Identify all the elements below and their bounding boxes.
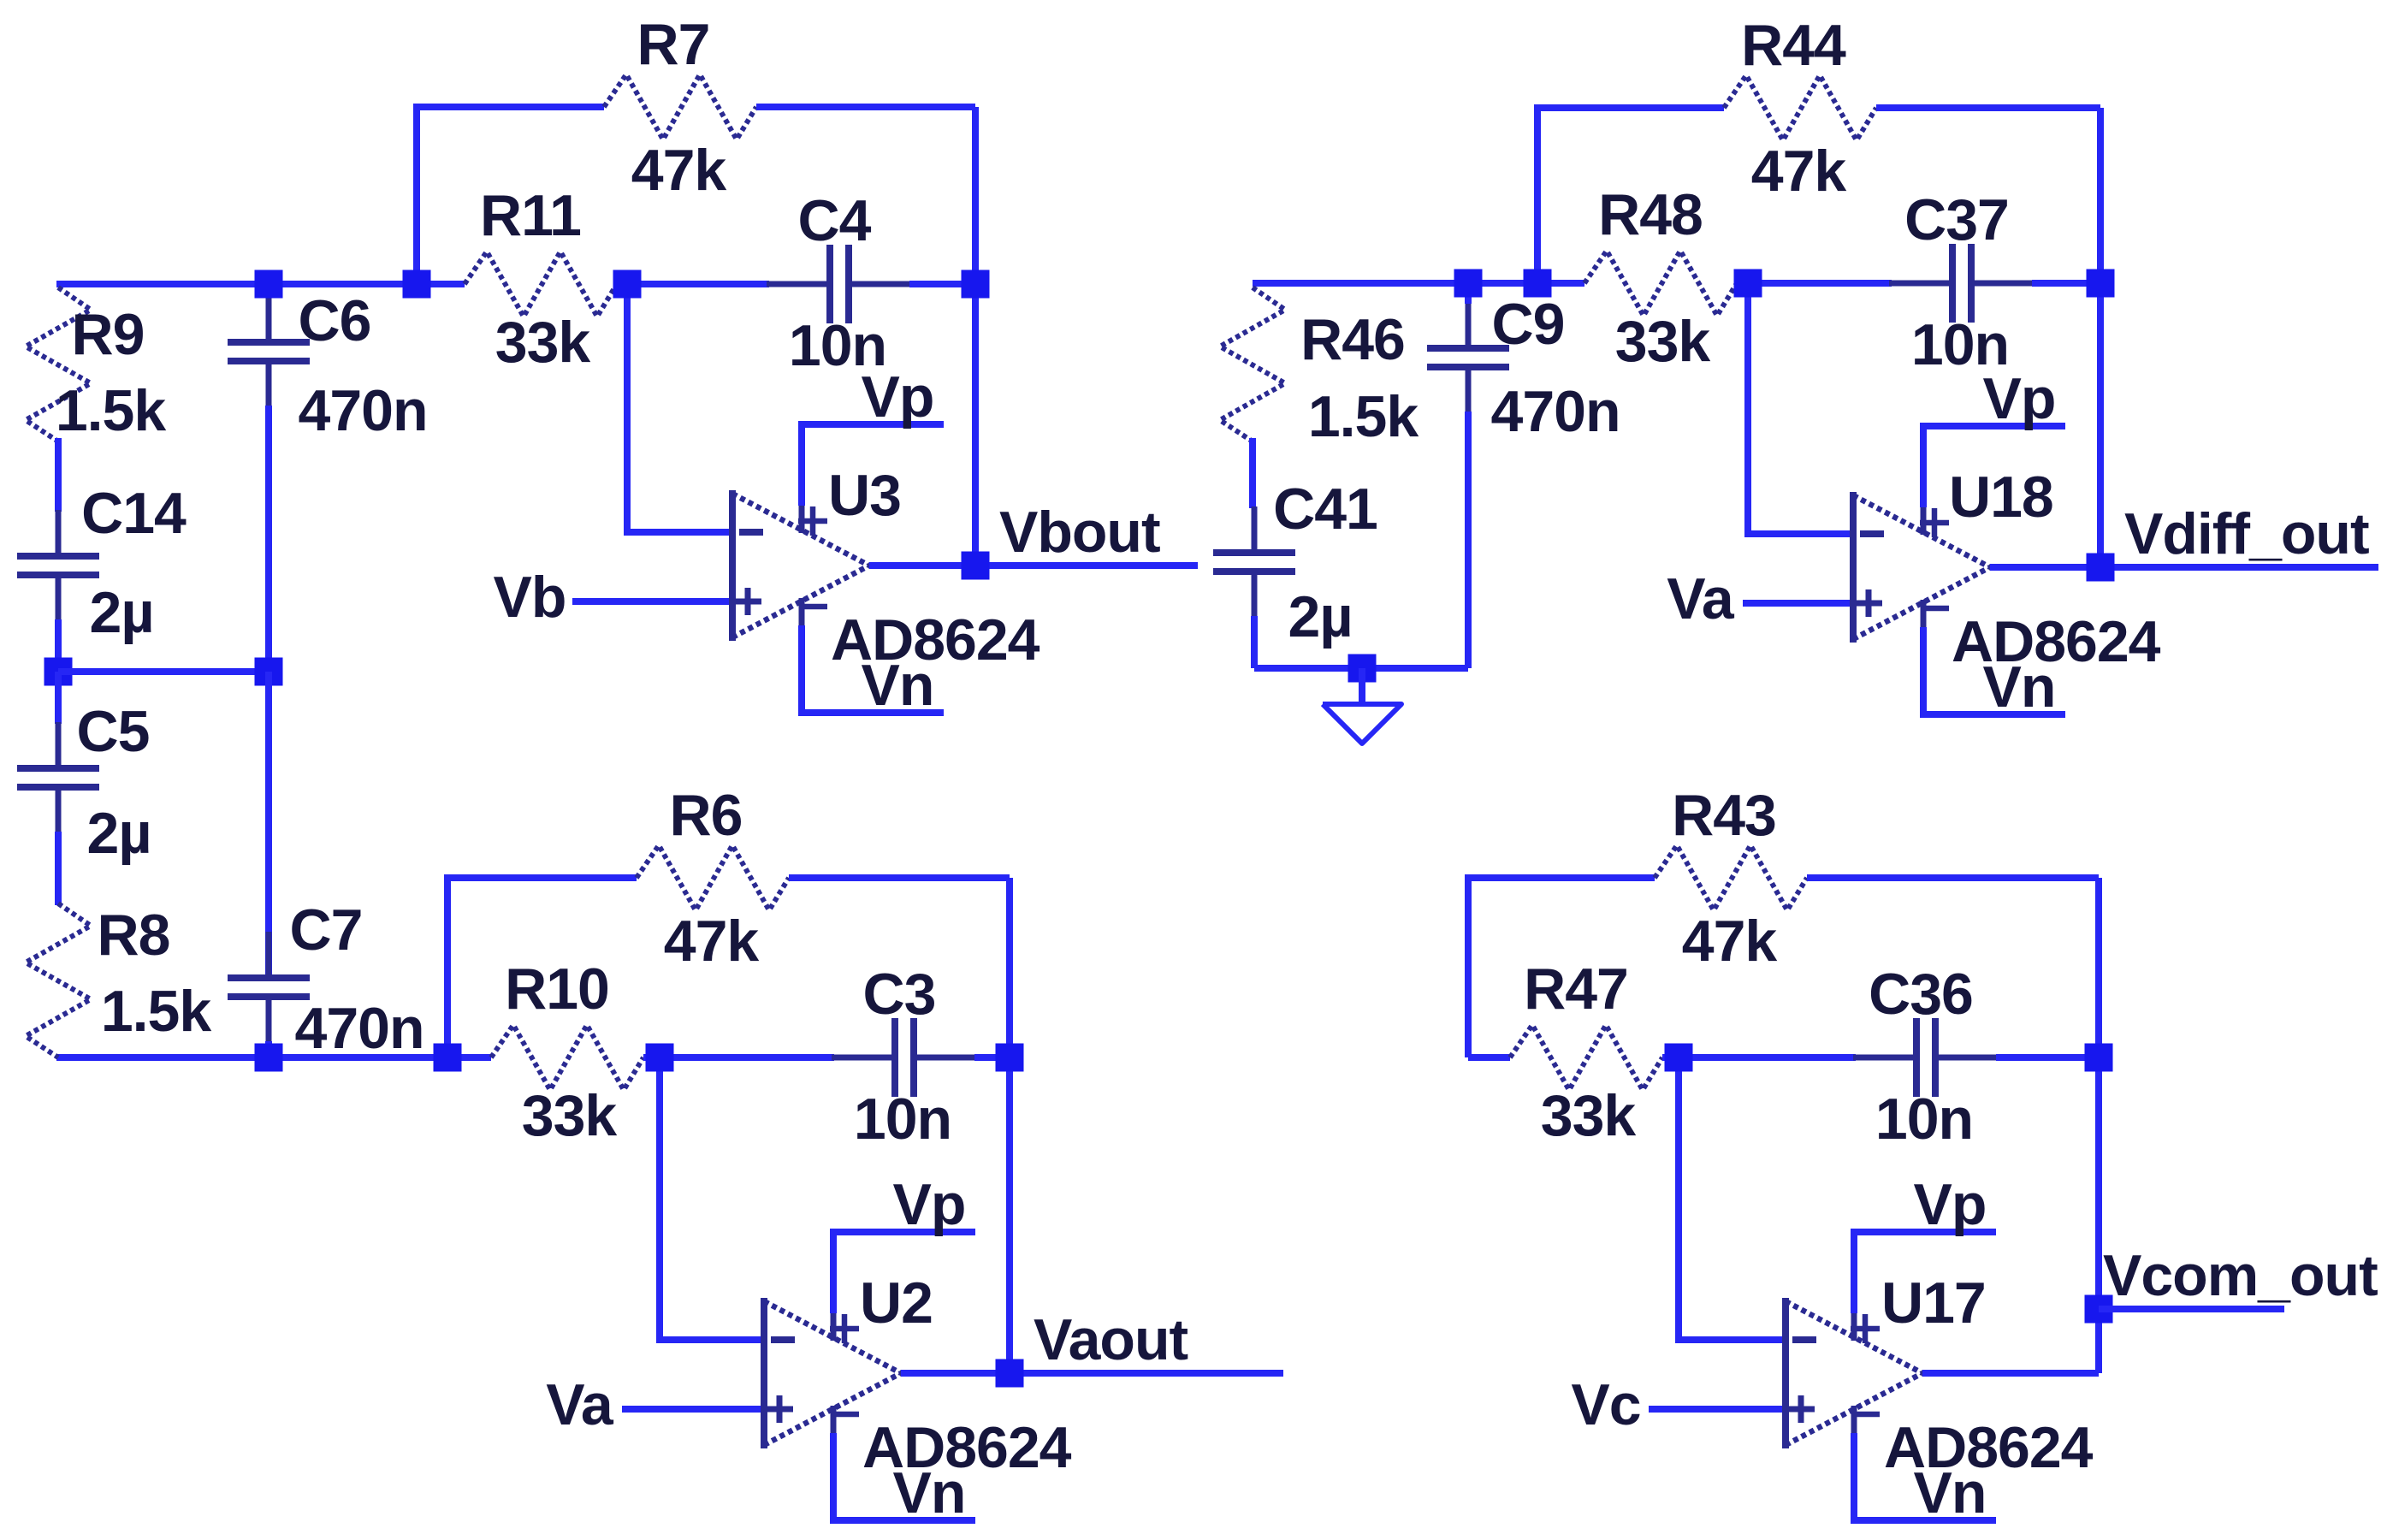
node output junction of U18 (2087, 554, 2115, 582)
capacitor C14 (56, 510, 62, 556)
resistor R8 (26, 903, 91, 1057)
node junction at TL series R / cap (node B) (613, 270, 642, 299)
svg-text:Vn: Vn (1914, 1460, 1987, 1525)
node output stub junction Vcom_out (2085, 1295, 2113, 1324)
svg-text:10n: 10n (854, 1087, 951, 1152)
node mid-left junction (44, 658, 73, 686)
svg-text:C9: C9 (1492, 292, 1565, 357)
resistor R43 (feedback) (1655, 845, 1807, 910)
wire TL feedback right vertical (972, 107, 979, 284)
wire C6 to mid node (265, 406, 272, 672)
wire input Vb to non-inverting input of U3 (572, 598, 732, 605)
svg-text:33k: 33k (522, 1083, 618, 1148)
power Vn rail of U3 (798, 625, 944, 713)
wire TR node B to capacitor C37 (1748, 280, 1892, 287)
resistor R48 (series) (1584, 251, 1737, 316)
wire ground horizontal (1254, 665, 1468, 672)
wire C5 to R8 (55, 832, 62, 905)
capacitor C3 (feedback cap) (832, 1055, 895, 1061)
svg-text:33k: 33k (495, 310, 591, 375)
svg-text:470n: 470n (295, 996, 424, 1061)
svg-text:Vdiff_out: Vdiff_out (2124, 501, 2369, 566)
svg-text:C4: C4 (798, 188, 872, 253)
op-amp U17 AD8624 (1786, 1298, 1922, 1448)
svg-text:Vcom_out: Vcom_out (2103, 1243, 2378, 1308)
capacitor C4 (feedback cap) (767, 281, 830, 287)
node C9 top junction (1454, 269, 1483, 298)
wire BL main wire nodeA to series resistor (447, 1054, 491, 1061)
wire BR feedback left vertical (1465, 878, 1472, 1057)
wire C14 to mid node (55, 619, 62, 672)
wire BL feedback right vertical (1006, 878, 1013, 1057)
svg-text:U18: U18 (1949, 465, 2053, 530)
svg-text:U17: U17 (1881, 1270, 1986, 1336)
node C6 bottom junction (255, 658, 283, 686)
wire TR capacitor C37 to node C (2032, 280, 2100, 287)
wire TL horizontal into inverting input (624, 529, 732, 536)
svg-text:Vn: Vn (1983, 654, 2056, 720)
resistor R44 (feedback) (1724, 75, 1876, 140)
wire BR right vertical to output (2095, 1057, 2102, 1373)
svg-text:Vb: Vb (494, 565, 566, 630)
wire BL feedback left vertical (444, 878, 451, 1057)
power Vp rail of U3 (798, 424, 944, 506)
svg-text:2µ: 2µ (90, 580, 154, 645)
wire mid horizontal (58, 668, 269, 675)
wire C7 to bottom main (265, 1041, 272, 1057)
svg-text:Vbout: Vbout (999, 500, 1160, 565)
wire TL feedback left vertical (413, 107, 420, 284)
node junction at BL feedback/main (node A) (434, 1044, 462, 1072)
wire TR feedback top right segment (1876, 104, 2100, 111)
resistor R7 (feedback) (604, 74, 756, 139)
resistor R6 (feedback) (637, 845, 789, 910)
wire output of U17 (1922, 1370, 2099, 1377)
node ground junction (1348, 654, 1377, 683)
wire output of U2 (901, 1370, 1283, 1377)
wire TL feedback top left segment (413, 104, 604, 110)
wire mid node down to C7 (265, 672, 272, 980)
svg-text:R47: R47 (1524, 957, 1628, 1022)
svg-text:C41: C41 (1273, 477, 1377, 542)
wire BL capacitor C3 to node C (974, 1054, 1010, 1061)
svg-text:10n: 10n (1875, 1087, 1973, 1152)
wire TR feedback left vertical (1534, 108, 1541, 283)
capacitor C7 (266, 932, 272, 978)
svg-text:R11: R11 (480, 183, 581, 248)
node junction at BL cap / feedback right (node C) (996, 1044, 1024, 1072)
svg-text:Va: Va (546, 1372, 614, 1437)
svg-text:Vp: Vp (1983, 366, 2056, 431)
wire output of U3 (869, 562, 1198, 569)
svg-text:R8: R8 (98, 903, 170, 968)
wire BL node B to capacitor C3 (660, 1054, 834, 1061)
node C6 top junction (255, 270, 283, 299)
wire BL series resistor to node B (643, 1054, 660, 1061)
wire BR node B to capacitor C36 (1679, 1054, 1856, 1061)
wire TL main wire nodeA to series resistor (417, 281, 465, 287)
svg-text:R43: R43 (1672, 783, 1776, 848)
wire TR main horizontal left segment (1253, 280, 1537, 287)
svg-text:R7: R7 (637, 12, 710, 77)
wire net stub Vcom_out (2099, 1306, 2284, 1312)
node junction at TR feedback/main (node A) (1524, 269, 1552, 298)
svg-text:U3: U3 (828, 463, 901, 528)
capacitor C37 (feedback cap) (1889, 281, 1952, 287)
svg-text:C37: C37 (1904, 187, 2009, 252)
svg-text:Vn: Vn (862, 653, 934, 718)
svg-text:C5: C5 (77, 699, 150, 764)
power Vp rail of U2 (830, 1232, 975, 1313)
svg-text:2µ: 2µ (1288, 584, 1353, 649)
svg-text:470n: 470n (299, 378, 428, 443)
wire BL node B vertical to inverting input (656, 1057, 663, 1340)
wire BL feedback top left segment (444, 874, 637, 881)
svg-text:Vp: Vp (1914, 1172, 1987, 1237)
svg-text:33k: 33k (1541, 1083, 1637, 1148)
wire TR feedback right vertical (2097, 108, 2104, 283)
wire TL series resistor to node B (617, 281, 627, 287)
node C7 bottom junction (255, 1044, 283, 1072)
wire BR feedback right vertical (2095, 878, 2102, 1057)
power Vp rail of U17 (1851, 1232, 1996, 1313)
op-amp U3 AD8624 (732, 490, 869, 641)
capacitor C6 (266, 296, 272, 342)
wire TL right vertical to output (972, 284, 979, 566)
capacitor C5 (56, 722, 62, 768)
wire R9 to C14 (55, 438, 62, 512)
wire TR feedback top left segment (1534, 104, 1724, 111)
svg-text:Vp: Vp (862, 364, 934, 429)
node junction at TL cap / feedback right (node C) (962, 270, 990, 299)
svg-text:Vaout: Vaout (1034, 1307, 1188, 1372)
wire TL main horizontal left segment (56, 281, 417, 287)
svg-text:U2: U2 (860, 1270, 933, 1336)
svg-text:R10: R10 (505, 957, 609, 1022)
svg-text:47k: 47k (664, 909, 760, 974)
svg-text:R48: R48 (1598, 182, 1703, 247)
wire BR feedback top left segment (1465, 874, 1655, 881)
op-amp U18 AD8624 (1853, 492, 1990, 643)
svg-text:47k: 47k (1751, 139, 1847, 204)
wire TR series resistor to node B (1737, 280, 1748, 287)
wire BR capacitor C36 to node C (1996, 1054, 2099, 1061)
wire BR horizontal into inverting input (1675, 1336, 1786, 1343)
resistor R47 (series) (1510, 1025, 1662, 1090)
svg-text:1.5k: 1.5k (56, 378, 167, 443)
wire BL main horizontal left segment (56, 1054, 447, 1061)
wire TL feedback top right segment (756, 104, 975, 110)
svg-text:2µ: 2µ (87, 801, 151, 866)
wire BR series resistor to node B (1662, 1054, 1679, 1061)
node junction at TL feedback/main (node A) (403, 270, 431, 299)
svg-text:470n: 470n (1491, 379, 1620, 444)
svg-text:R46: R46 (1300, 307, 1405, 372)
svg-text:47k: 47k (1682, 909, 1778, 974)
wire TL node B to capacitor C4 (627, 281, 769, 287)
svg-text:Vc: Vc (1571, 1372, 1640, 1437)
node junction at BL series R / cap (node B) (646, 1044, 674, 1072)
wire input Va to non-inverting input of U18 (1743, 600, 1853, 607)
wire TR horizontal into inverting input (1744, 530, 1853, 537)
ground symbol (1323, 668, 1401, 743)
wire output of U18 (1990, 564, 2378, 571)
power Vp rail of U18 (1920, 426, 2065, 507)
svg-text:Vp: Vp (893, 1172, 966, 1237)
node junction at TR series R / cap (node B) (1734, 269, 1762, 298)
svg-text:C36: C36 (1869, 962, 1973, 1027)
node junction at BR series R / cap (node B) (1665, 1044, 1693, 1072)
op-amp U2 AD8624 (764, 1298, 901, 1448)
wire C6 top lead to main (265, 284, 272, 298)
svg-text:47k: 47k (631, 138, 727, 203)
wire BL feedback top right segment (789, 874, 1010, 881)
svg-text:33k: 33k (1615, 309, 1711, 374)
resistor R46 (1220, 287, 1285, 441)
capacitor C9 (1466, 302, 1472, 348)
wire TL node B vertical to inverting input (624, 284, 631, 532)
wire input Va to non-inverting input of U2 (622, 1406, 764, 1413)
capacitor C36 (feedback cap) (1853, 1055, 1916, 1061)
svg-text:Va: Va (1667, 566, 1735, 631)
wire C41 to ground wire (1251, 616, 1258, 668)
svg-text:1.5k: 1.5k (1308, 384, 1419, 449)
wire TL capacitor C4 to node C (909, 281, 975, 287)
svg-text:C6: C6 (299, 288, 371, 353)
svg-text:C14: C14 (81, 481, 187, 546)
wire C9 top lead to main (1465, 283, 1472, 304)
node output junction of U2 (996, 1359, 1024, 1388)
node output junction of U3 (962, 552, 990, 580)
capacitor C41 (1252, 506, 1258, 553)
node junction at BR cap / feedback right (node C) (2085, 1044, 2113, 1072)
power Vn rail of U17 (1851, 1433, 1996, 1520)
wire mid node to C5 (55, 672, 62, 724)
svg-text:R9: R9 (72, 302, 145, 367)
svg-text:1.5k: 1.5k (101, 979, 212, 1044)
wire R46 to C41 (1249, 438, 1256, 508)
resistor R10 (series) (491, 1025, 643, 1090)
wire TR right vertical to output (2097, 283, 2104, 567)
power Vn rail of U18 (1920, 627, 2065, 714)
node junction at TR cap / feedback right (node C) (2087, 269, 2115, 298)
wire BR feedback top right segment (1807, 874, 2099, 881)
svg-text:R6: R6 (670, 783, 743, 848)
svg-text:C3: C3 (863, 962, 936, 1027)
power Vn rail of U2 (830, 1433, 975, 1520)
wire BR node B vertical to inverting input (1675, 1057, 1682, 1340)
wire TR node B vertical to inverting input (1744, 283, 1751, 534)
svg-text:Vn: Vn (893, 1460, 966, 1525)
wire BR main wire nodeA to series resistor (1468, 1054, 1510, 1061)
wire input Vc to non-inverting input of U17 (1649, 1406, 1786, 1413)
svg-text:C7: C7 (290, 897, 363, 962)
svg-text:R44: R44 (1741, 13, 1846, 78)
resistor R9 (26, 287, 91, 441)
resistor R11 (series) (465, 252, 617, 317)
wire C9 down to ground wire (1465, 412, 1472, 668)
wire TR main wire nodeA to series resistor (1537, 280, 1584, 287)
wire BL right vertical to output (1006, 1057, 1013, 1373)
wire BL horizontal into inverting input (656, 1336, 764, 1343)
